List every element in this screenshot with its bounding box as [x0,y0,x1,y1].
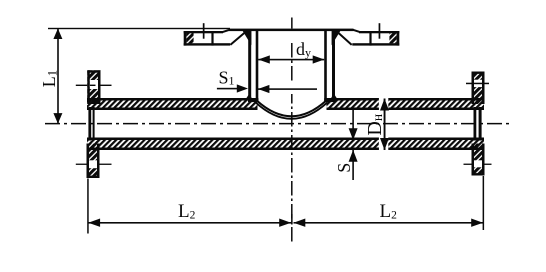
svg-text:S: S [334,163,354,173]
weld fillet left junction [245,93,252,100]
dimension Dn line [384,99,386,151]
dimension L1 bottom arrow [53,113,62,124]
weld triangle flange right [332,30,342,46]
top flange ring top line left [184,31,223,33]
top flange right end edge [397,31,400,46]
left flange bolt axis top [76,85,112,86]
Dn dimension white gap [379,97,388,112]
dimension L1 extension line top [48,28,230,29]
branch right wall inner line [324,30,327,102]
top flange raised face step left [223,30,230,32]
right flange bolt axis bottom [464,164,492,165]
top flange chamfer left [230,30,248,45]
dimension S1 outer arrow [217,84,248,92]
branch right wall outer line [332,30,335,101]
right flange bolt axis top [466,83,489,85]
dimension L1 line [57,28,59,123]
dimension L2 left line [88,222,291,224]
top flange bolt axis right [379,23,381,39]
top flange hole separator line left [211,31,213,46]
pipe bottom wall [87,138,484,151]
dimension Dn top arrow [380,99,389,111]
dimension S1 inner arrow [258,85,317,93]
weld fillet right junction [330,93,338,100]
dimension L1 top arrow [53,29,62,40]
top flange hatch right [389,33,396,43]
L2 left east arrow [279,219,291,227]
dimension S upper arrow [349,108,358,140]
weld triangle flange left [242,30,252,46]
pipe top wall right segment [327,98,485,110]
top flange bottom line right [352,43,399,45]
saddle arc inner [256,102,328,119]
dimension dy left arrow [258,55,270,63]
pipe end lines left [88,107,94,141]
L2 extension line left [87,179,89,234]
dimension dy line [258,59,324,61]
L2 left west arrow [88,219,100,227]
top flange left end edge [184,31,187,46]
pipe centerline [45,123,513,125]
branch left wall inner line [256,30,259,102]
pipe end lines right [474,107,482,141]
saddle arc outer [257,101,326,117]
L2 extension line right [483,176,485,230]
top flange bolt axis left [203,23,205,39]
centerline junction dash [291,214,293,225]
top flange hatch left [186,33,193,43]
top flange raised face top line [229,29,354,32]
top flange ring top line right [359,31,399,33]
L2 right east arrow [471,219,483,227]
dimension dy right arrow [313,55,325,63]
branch centerline [291,18,293,29]
top flange chamfer right [335,30,352,45]
branch left wall outer line [248,30,251,101]
left flange bolt axis bottom [76,164,112,165]
left flange upper half [87,70,100,104]
mask on branch centerline for S1 leader [289,83,296,95]
top flange raised face step right [353,30,360,32]
right flange lower half [472,144,485,176]
weld at branch-pipe junction right [324,98,335,102]
pipe top wall left segment [87,98,258,110]
left flange lower half [87,144,100,179]
right flange upper half [472,72,485,105]
dimension L2 right line [294,222,484,224]
weld at branch-pipe junction left [248,98,259,102]
top flange hole separator line right [369,31,371,46]
dimension Dn bottom arrow [380,138,389,150]
dimension S lower arrow [349,150,358,180]
L2 right west arrow [294,219,306,227]
top flange bottom line left [184,43,230,45]
